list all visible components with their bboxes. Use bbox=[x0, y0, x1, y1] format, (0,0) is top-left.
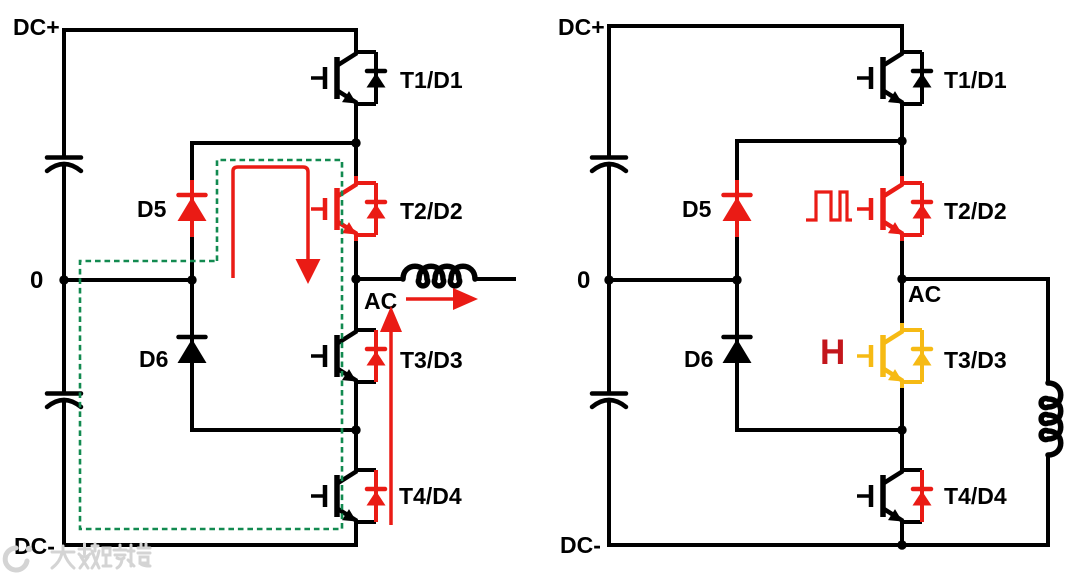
svg-text:T3/D3: T3/D3 bbox=[400, 347, 463, 373]
wire: right DC bus vertical upper bbox=[607, 24, 611, 157]
wire: right DC+ top rail horizontal bbox=[609, 24, 904, 28]
wire: right D6 column bbox=[735, 280, 739, 432]
node 0 (left) bbox=[59, 275, 68, 284]
wire: right neutral horizontal bbox=[609, 278, 737, 282]
svg-text:T2/D2: T2/D2 bbox=[400, 198, 463, 224]
IGBT T4 (right, with red diode D4) bbox=[857, 463, 932, 529]
svg-text:DC-: DC- bbox=[14, 533, 55, 559]
IGBT T3 (left, with red diode D3) bbox=[311, 323, 386, 389]
wire: right load rail lower bbox=[1046, 454, 1050, 547]
svg-text:AC: AC bbox=[908, 281, 941, 307]
wire: left clamp top horizontal (D5 to T1/T2 midpoint) bbox=[190, 141, 356, 145]
node: left T1-T2 midpoint bbox=[351, 138, 360, 147]
node: right T1-T2 midpoint bbox=[897, 136, 906, 145]
wire: right DC bus vertical middle bbox=[607, 163, 611, 393]
IGBT T1 (right, with diode D1) bbox=[857, 45, 932, 111]
wire: right AC horizontal to load bbox=[902, 277, 1048, 281]
wire: right leg T4 emitter to DC- rail bbox=[900, 528, 904, 547]
red arrow right after AC inductor (left diagram) bbox=[406, 297, 456, 301]
node 0 (right) bbox=[604, 275, 613, 284]
svg-text:D5: D5 bbox=[137, 196, 167, 222]
IGBT T1 (left, with diode D1) bbox=[311, 45, 386, 111]
diode D5 (right) bbox=[723, 195, 752, 221]
node: right D5/D6 junction at neutral bbox=[732, 275, 741, 284]
red square-wave gate signal icon (right T2) bbox=[806, 192, 852, 220]
svg-text:T2/D2: T2/D2 bbox=[944, 198, 1007, 224]
wire: left leg T1 collector from top rail bbox=[354, 30, 358, 46]
wire: right clamp top horizontal bbox=[735, 139, 902, 143]
wire: right D5 red lead bbox=[735, 180, 739, 237]
wire: left AC output after inductor bbox=[474, 277, 516, 281]
svg-text:D6: D6 bbox=[139, 346, 168, 372]
svg-text:T3/D3: T3/D3 bbox=[944, 347, 1007, 373]
IGBT T4 (left, with red diode D4) bbox=[311, 463, 386, 529]
IGBT T3 (right, yellow, with diode D3) bbox=[857, 323, 932, 389]
capacitor C1 (left upper) bbox=[47, 158, 81, 172]
inductor L (right load) bbox=[1041, 383, 1061, 455]
wire: left DC+ top rail horizontal bbox=[64, 28, 358, 32]
red current path arrow (inner loop, left diagram) bbox=[233, 167, 308, 278]
capacitor C2 (right lower) bbox=[592, 394, 626, 408]
IGBT T2 (right, red, with diode D2) bbox=[857, 176, 932, 242]
svg-text:DC-: DC- bbox=[560, 532, 601, 558]
wire: right D5 column black parts bbox=[735, 139, 739, 181]
svg-text:H: H bbox=[820, 333, 845, 372]
wire: right leg T1 collector from top rail bbox=[900, 26, 904, 46]
wire: left AC output horizontal bbox=[356, 277, 404, 281]
node: right DC- junction below T4 bbox=[897, 540, 906, 549]
wire: right clamp bottom horizontal bbox=[735, 428, 902, 432]
wire: right leg between T3 and T4 bbox=[900, 388, 904, 465]
wire: left leg between T2 and T3 bbox=[354, 241, 358, 325]
wire: left D6 column bbox=[190, 280, 194, 432]
wire: left DC bus vertical upper bbox=[62, 28, 66, 157]
node AC (right) bbox=[897, 274, 906, 283]
svg-text:T1/D1: T1/D1 bbox=[944, 67, 1007, 93]
wire: right leg between T2 and T3 bbox=[900, 241, 904, 325]
svg-text:T4/D4: T4/D4 bbox=[399, 483, 462, 509]
wire: left D5 red lead bbox=[190, 180, 194, 237]
svg-text:D6: D6 bbox=[684, 346, 713, 372]
wire: right DC- bottom rail horizontal bbox=[607, 543, 1048, 547]
node AC (left) bbox=[351, 274, 360, 283]
green dashed current loop (left diagram) bbox=[80, 160, 342, 529]
svg-text:D5: D5 bbox=[682, 196, 712, 222]
svg-text:T1/D1: T1/D1 bbox=[400, 67, 463, 93]
diode D5 (left) bbox=[178, 195, 207, 221]
wire: left DC bus vertical lower bbox=[62, 399, 66, 547]
wire: left DC- bottom rail horizontal bbox=[62, 543, 358, 547]
watermark logo bbox=[5, 548, 27, 570]
wire: left leg between T3 and T4 bbox=[354, 388, 358, 465]
svg-text:0: 0 bbox=[577, 267, 590, 294]
watermark text strokes bbox=[52, 544, 150, 568]
capacitor C2 (left lower) bbox=[47, 394, 81, 408]
wire: left clamp bottom horizontal (D6 to T3/T4 midpoint) bbox=[190, 428, 356, 432]
svg-text:DC+: DC+ bbox=[13, 14, 60, 40]
node: left D5/D6 junction at neutral bbox=[187, 275, 196, 284]
wire: right leg between T1 and T2 bbox=[900, 110, 904, 177]
wire: left DC bus vertical middle bbox=[62, 163, 66, 393]
svg-text:T4/D4: T4/D4 bbox=[944, 483, 1007, 509]
inductor L (left AC output) bbox=[403, 266, 475, 286]
wire: left leg T4 emitter to DC- rail bbox=[354, 528, 358, 547]
IGBT T2 (left, red, with diode D2) bbox=[311, 176, 386, 242]
svg-text:DC+: DC+ bbox=[558, 14, 605, 40]
diode D6 (right) bbox=[723, 337, 752, 363]
capacitor C1 (right upper) bbox=[592, 158, 626, 172]
svg-text:0: 0 bbox=[30, 267, 43, 294]
wire: right DC bus vertical lower bbox=[607, 399, 611, 547]
node: right T3-T4 midpoint bbox=[897, 425, 906, 434]
wire: left neutral horizontal bbox=[64, 278, 192, 282]
diode D6 (left) bbox=[178, 337, 207, 363]
wire: right load rail upper bbox=[1046, 277, 1050, 384]
wire: left D5 column black parts bbox=[190, 141, 194, 181]
wire: left leg between T1 and T2 bbox=[354, 110, 358, 177]
red arrow up along T3/T4 (left diagram) bbox=[389, 330, 393, 525]
node: left T3-T4 midpoint bbox=[351, 425, 360, 434]
